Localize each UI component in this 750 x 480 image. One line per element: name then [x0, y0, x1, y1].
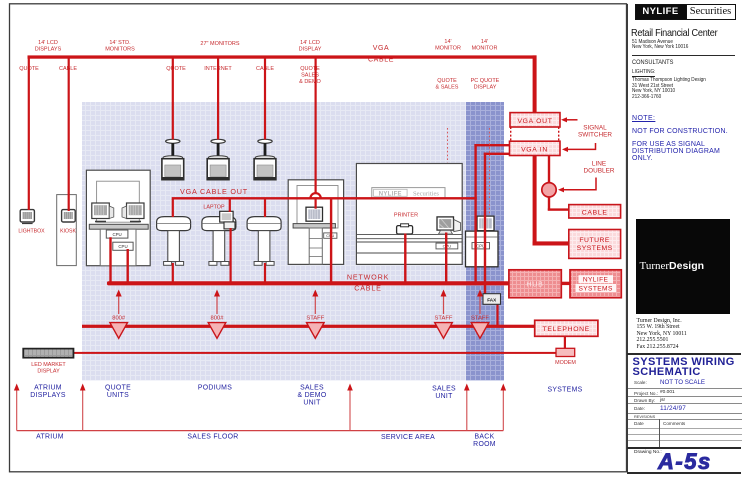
- bracket arrow service area left: [347, 384, 353, 431]
- svg-text:14' LCDDISPLAY: 14' LCDDISPLAY: [299, 40, 322, 53]
- consultants heading: [632, 59, 673, 66]
- wire quote sales demo drop (below hop): [315, 199, 317, 209]
- wire VGA IN to future systems (vertical thick): [533, 156, 537, 246]
- tap STAFF no.3: [471, 290, 489, 339]
- wire quote unit CPU 1 drop: [109, 237, 111, 282]
- quote unit CPU 1: [106, 230, 128, 238]
- quote unit monitor right: [122, 203, 144, 222]
- kiosk cabinet: [57, 195, 77, 266]
- switcher dashed link right: [558, 127, 560, 141]
- svg-text:800#: 800#: [112, 316, 126, 322]
- arrow signal switcher to VGA OUT: [561, 117, 578, 122]
- svg-text:SALES FLOOR: SALES FLOOR: [187, 434, 238, 441]
- wire demo unit CPU drop: [330, 199, 332, 283]
- box VGA OUT: [510, 113, 560, 127]
- wire sales counter CPU drop: [445, 233, 447, 283]
- wire podium 1 VGA drop: [172, 199, 174, 217]
- project number row: [634, 391, 658, 396]
- wire tower to VGA IN (horizontal): [484, 153, 510, 155]
- box FUTURE SYSTEMS: [569, 230, 621, 259]
- svg-text:Securities: Securities: [413, 190, 439, 197]
- svg-text:VGA CABLE OUT: VGA CABLE OUT: [180, 187, 248, 196]
- back room dark grid column: [466, 102, 504, 381]
- laptop on podium 2: [220, 211, 235, 229]
- svg-text:KIOSK: KIOSK: [60, 229, 76, 235]
- svg-text:NYLIFE: NYLIFE: [379, 191, 402, 197]
- svg-text:LAPTOP: LAPTOP: [203, 205, 225, 211]
- wire bus drop to VGA OUT: [533, 55, 537, 113]
- svg-text:PC QUOTEDISPLAY: PC QUOTEDISPLAY: [471, 78, 500, 91]
- ceiling monitor 1: [162, 139, 184, 179]
- sheet title: [633, 357, 735, 377]
- svg-text:SALESUNIT: SALESUNIT: [432, 386, 456, 401]
- svg-text:CPU: CPU: [118, 244, 127, 249]
- ceiling monitor 2: [207, 139, 229, 179]
- drawing number A-5s: [658, 449, 712, 475]
- svg-text:27" MONITORS: 27" MONITORS: [200, 41, 239, 47]
- wire cable drop to monitor 3: [264, 58, 266, 140]
- wire laptop VGA drop: [229, 199, 231, 212]
- wire PC quote display to VGA IN (horizontal): [474, 144, 509, 146]
- wire LED market display line: [74, 352, 557, 354]
- wire tower down to fax: [484, 153, 486, 294]
- LED market display bar: [23, 349, 73, 358]
- revisions table lines: [628, 427, 742, 430]
- svg-text:CABLE: CABLE: [582, 209, 608, 216]
- wire podium 3 VGA drop: [264, 199, 266, 217]
- wire quote unit CPU 2 drop: [127, 249, 129, 283]
- quote unit CPU 2: [113, 242, 133, 250]
- wire quote drop to lightbox: [28, 58, 30, 210]
- svg-text:SYSTEMS: SYSTEMS: [547, 387, 582, 394]
- demo unit CPU: [324, 233, 337, 238]
- svg-text:QUOTE: QUOTE: [166, 66, 186, 72]
- quote unit cabinet: [86, 170, 150, 266]
- svg-text:VGA IN: VGA IN: [521, 146, 548, 153]
- svg-text:ATRIUM: ATRIUM: [36, 434, 64, 441]
- Turner Design address: [637, 318, 687, 351]
- arrow line doubler label to circle: [558, 178, 596, 193]
- wire network bus: [107, 281, 509, 285]
- tap STAFF no.2: [435, 290, 453, 339]
- bottom rule: [627, 472, 741, 474]
- svg-text:STAFF: STAFF: [306, 316, 324, 322]
- switcher dashed link left: [510, 127, 512, 141]
- wire laptop network drop: [230, 228, 232, 283]
- consultants rule: [632, 55, 735, 56]
- bracket arrow back room right: [500, 384, 506, 431]
- svg-text:STAFF: STAFF: [471, 316, 489, 322]
- podium 3: [247, 217, 281, 266]
- revisions header row: [634, 421, 644, 426]
- svg-text:CPU: CPU: [112, 232, 121, 237]
- svg-text:MODEM: MODEM: [555, 360, 576, 366]
- wire printer drop: [404, 234, 406, 283]
- note heading: [632, 115, 655, 122]
- podium 1: [157, 217, 191, 266]
- svg-text:CPU: CPU: [476, 244, 485, 249]
- NYLIFE Securities logo: [635, 4, 736, 21]
- box VGA IN: [510, 141, 561, 155]
- title block divider: [627, 4, 628, 472]
- note distribution only: [632, 141, 720, 162]
- wire VGA distribution bus (top): [28, 55, 537, 58]
- svg-text:14' LCDDISPLAYS: 14' LCDDISPLAYS: [35, 40, 62, 53]
- svg-text:VGA OUT: VGA OUT: [517, 118, 552, 125]
- NYLIFE Securities sign on counter: [372, 188, 445, 198]
- wire fax to staff line: [496, 304, 498, 325]
- tap STAFF no.1: [306, 290, 324, 339]
- sales floor grid background: [82, 102, 466, 381]
- svg-text:SERVICE AREA: SERVICE AREA: [381, 434, 435, 441]
- box TELEPHONE: [535, 320, 598, 336]
- bracket arrow back room left: [464, 384, 470, 431]
- svg-text:LIGHTBOX: LIGHTBOX: [18, 229, 45, 235]
- wire cable drop to kiosk: [68, 58, 70, 211]
- date row: [634, 406, 645, 411]
- wire quote drop to monitor 1: [172, 58, 174, 140]
- TurnerDesign logo block: [636, 219, 731, 314]
- wire staff telephone line: [82, 325, 535, 328]
- sales counter CPU: [436, 243, 458, 249]
- arrow signal switcher to VGA IN: [562, 143, 596, 152]
- svg-text:14' STD.MONITORS: 14' STD.MONITORS: [105, 40, 135, 53]
- project address: [632, 40, 688, 52]
- svg-text:QUOTEUNITS: QUOTEUNITS: [105, 385, 131, 400]
- svg-text:NYLIFESYSTEMS: NYLIFESYSTEMS: [578, 277, 613, 293]
- wire line doubler to cable elbow horizontal: [548, 208, 570, 210]
- podium 2: [202, 217, 236, 266]
- wire dashed leader QUOTE & SALES: [447, 128, 449, 163]
- svg-text:ATRIUMDISPLAYS: ATRIUMDISPLAYS: [30, 385, 66, 400]
- box HUB: [509, 270, 561, 298]
- wire PC quote display to VGA IN (vertical): [474, 144, 476, 282]
- revisions heading: [634, 414, 655, 419]
- PC quote display tower: [466, 231, 499, 267]
- sales counter monitor and keyboard: [437, 217, 461, 234]
- wire to future systems (horizontal thick): [533, 241, 570, 245]
- lighting consultant: [632, 70, 706, 100]
- line doubler circle: [542, 183, 556, 197]
- tap 800# no.1: [110, 290, 128, 339]
- svg-text:FAX: FAX: [487, 297, 497, 302]
- note not for construction: [632, 128, 728, 135]
- demo unit cabinet: [288, 180, 343, 265]
- svg-text:FUTURESYSTEMS: FUTURESYSTEMS: [577, 237, 613, 252]
- svg-text:800#: 800#: [211, 316, 225, 322]
- wire hub to nylife systems: [561, 282, 570, 285]
- bracket baseline: [17, 430, 504, 432]
- tap 800# no.2: [208, 290, 226, 339]
- wire dashed leader PC QUOTE DISPLAY: [489, 128, 491, 215]
- wire quote sales demo drop (upper): [315, 58, 317, 193]
- wire VGA IN to line doubler: [548, 156, 550, 184]
- box FAX: [483, 294, 501, 305]
- svg-text:QUOTESALES& DEMO: QUOTESALES& DEMO: [299, 66, 321, 85]
- PC quote display monitor: [477, 216, 494, 231]
- wire VGA cable out line: [172, 197, 477, 199]
- printer: [397, 224, 413, 234]
- drawing number label: [634, 450, 662, 455]
- svg-text:PODIUMS: PODIUMS: [198, 385, 232, 392]
- bracket arrow atrium right: [80, 384, 86, 431]
- svg-text:STAFF: STAFF: [435, 316, 453, 322]
- drawn by row: [634, 398, 655, 403]
- svg-text:QUOTE& SALES: QUOTE& SALES: [436, 78, 459, 91]
- box NYLIFE SYSTEMS: [570, 270, 621, 298]
- wire hop over VGA line: [310, 193, 320, 198]
- drawing number rule: [627, 447, 741, 449]
- scale row: [634, 380, 647, 385]
- wire podium 1 network drop: [172, 263, 174, 283]
- sheet title rule: [627, 353, 741, 355]
- demo unit monitor: [306, 207, 323, 221]
- wire internet drop to monitor 2: [217, 58, 219, 140]
- lightbox display: [20, 210, 34, 224]
- box MODEM: [556, 348, 575, 356]
- svg-text:PRINTER: PRINTER: [394, 213, 418, 219]
- project name: [631, 27, 717, 39]
- svg-text:TELEPHONE: TELEPHONE: [543, 326, 590, 333]
- wire podium 3 network drop: [264, 263, 266, 283]
- ceiling monitor 3: [254, 139, 276, 179]
- wire telephone to modem: [564, 336, 566, 348]
- quote unit monitor left: [92, 203, 114, 222]
- svg-text:HUB: HUB: [526, 282, 543, 289]
- box CABLE: [569, 205, 621, 218]
- svg-text:BACKROOM: BACKROOM: [473, 434, 496, 449]
- bracket arrow atrium left: [14, 384, 20, 431]
- wire line doubler to cable elbow vertical: [548, 197, 550, 211]
- sales counter cabinet: [356, 164, 462, 265]
